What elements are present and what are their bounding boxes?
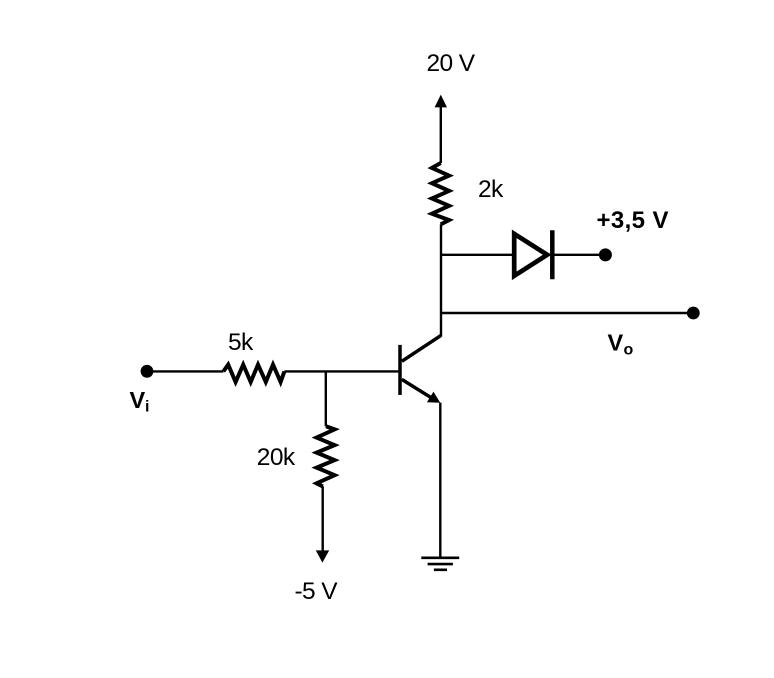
svg-text:2k: 2k — [478, 176, 504, 203]
svg-text:5k: 5k — [228, 329, 254, 356]
svg-text:20 V: 20 V — [427, 50, 476, 77]
wire to diode anode — [440, 254, 512, 256]
transistor Q1 base bar — [398, 345, 402, 395]
supply arrow down (-5 V) — [316, 550, 329, 562]
wire 20k to -5 V arrow — [322, 486, 324, 552]
terminal node Vo — [687, 307, 700, 320]
wire collector rail (resistor bottom to collector bend) — [440, 224, 442, 336]
terminal node Vi — [141, 365, 154, 378]
wire 5k to base — [284, 370, 398, 372]
svg-text:V: V — [608, 330, 624, 356]
svg-text:o: o — [624, 342, 634, 359]
svg-text:+3,5 V: +3,5 V — [596, 207, 668, 234]
terminal node +3,5 V — [599, 248, 612, 261]
transistor Q1 emitter lead with arrow — [402, 379, 440, 402]
svg-text:-5 V: -5 V — [295, 578, 339, 605]
resistor 20k — [317, 426, 335, 486]
wire base node down to 20k — [325, 371, 327, 426]
ground symbol — [421, 558, 459, 570]
transistor Q1 collector lead — [402, 336, 441, 362]
diode D1 — [514, 230, 552, 279]
wire diode cathode to terminal — [554, 254, 599, 256]
resistor 2k — [432, 163, 449, 224]
svg-text:V: V — [130, 387, 146, 413]
svg-text:20k: 20k — [257, 444, 296, 471]
wire Vi to 5k — [148, 370, 224, 372]
resistor 5k — [223, 365, 284, 382]
wire Vo output line — [441, 312, 691, 314]
wire emitter to ground — [439, 403, 441, 558]
power arrow up (20 V supply) — [435, 95, 447, 163]
svg-text:i: i — [145, 399, 149, 416]
